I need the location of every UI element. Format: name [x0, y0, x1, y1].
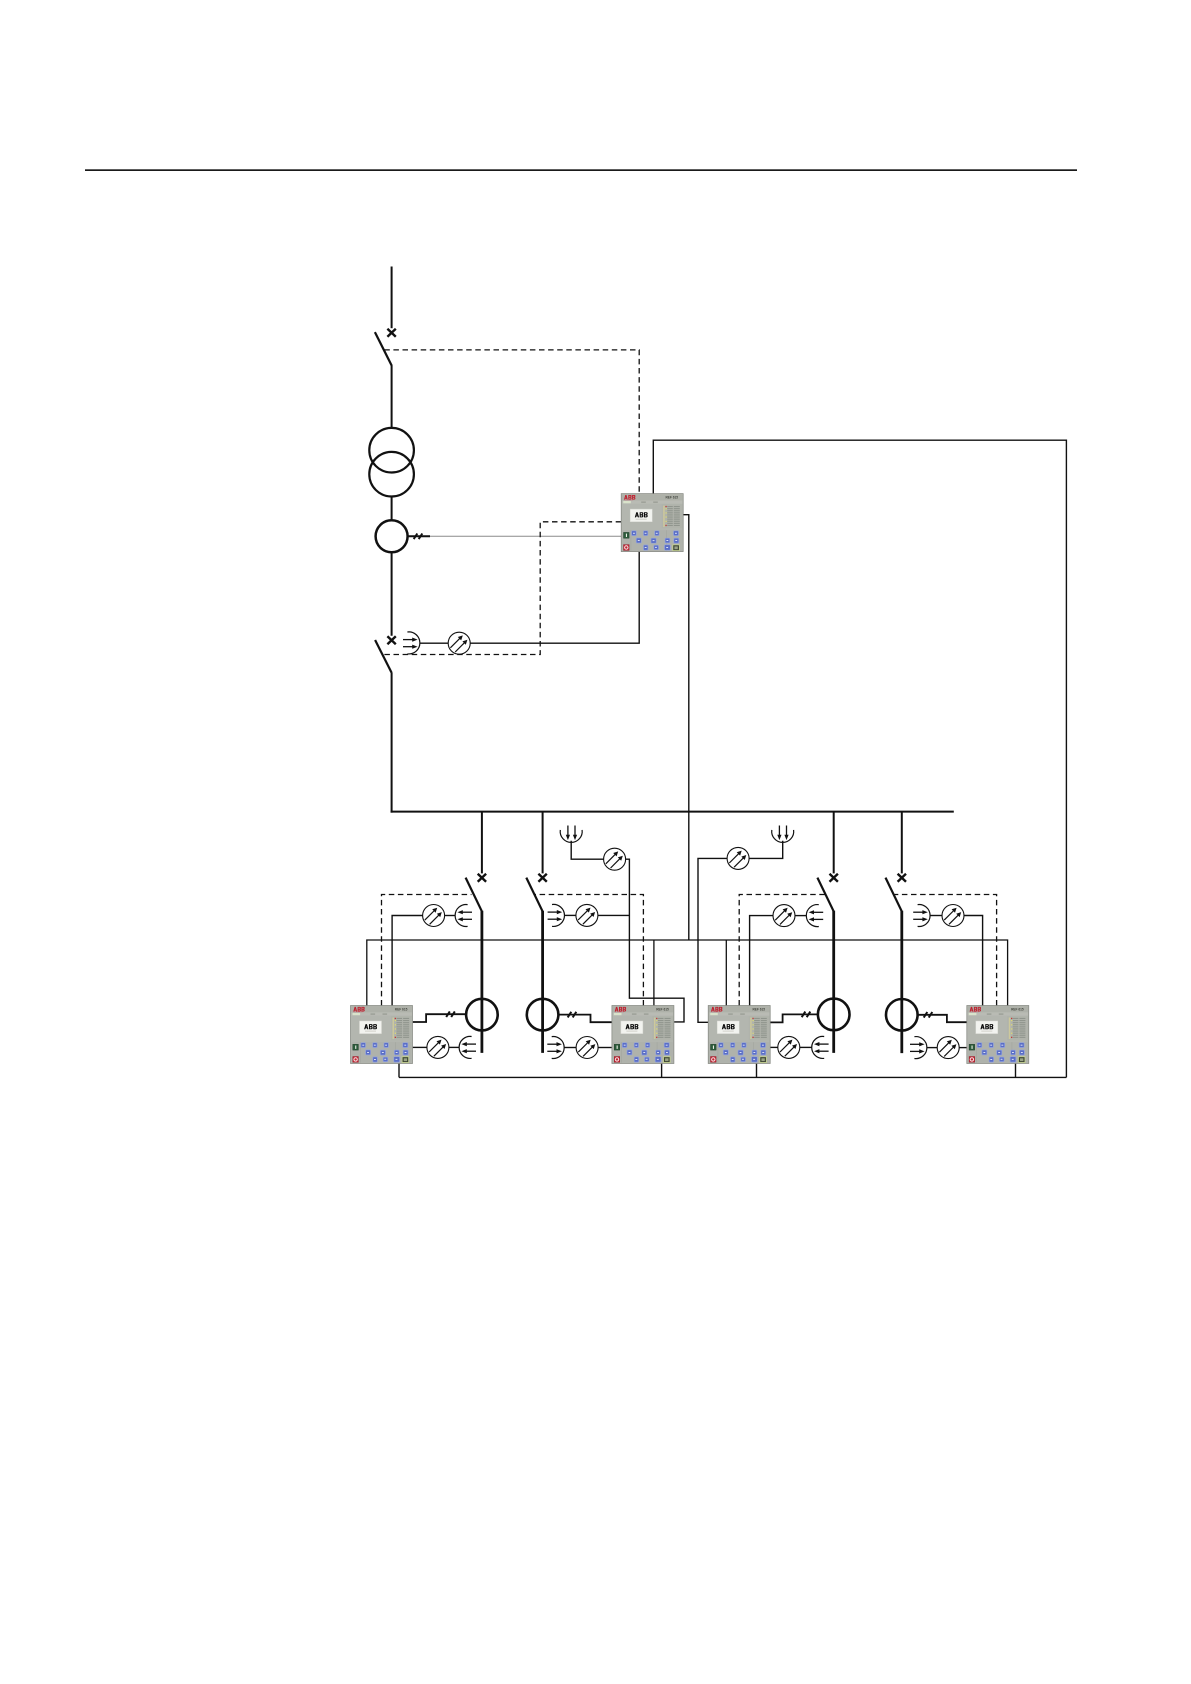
drop to relay U3 [725, 940, 727, 1006]
wire to relay U2 wrap [626, 859, 684, 1022]
wire [565, 914, 577, 916]
wire [445, 915, 455, 917]
CT T0 slash marks [414, 534, 423, 540]
relay U3 CT wire [770, 1014, 817, 1022]
bus sensor S5 [604, 848, 626, 870]
bay3 sensor S3a [773, 905, 795, 927]
wire [391, 497, 393, 521]
relay U4 bottom stub [1015, 1063, 1017, 1077]
CT T0 circle [376, 520, 408, 552]
feeder F2 [526, 812, 558, 1053]
bay2 sensor S2a [576, 904, 598, 926]
bottom horizontal wire [399, 1076, 1066, 1078]
CT T0 output stub [408, 535, 431, 537]
bay4 plug [913, 905, 930, 927]
wire [795, 915, 806, 917]
wire [598, 1047, 612, 1049]
bay4 plug lower [910, 1037, 927, 1059]
drop to relay U2 [653, 940, 655, 1006]
wire sensor S0 to relay U0 bottom [470, 552, 639, 644]
wire [391, 365, 393, 428]
sensor S4b [937, 1037, 959, 1059]
wire [449, 1046, 459, 1048]
wire relay U0 right output down to station bus [683, 515, 689, 940]
bay3 sensor wire [750, 916, 774, 1006]
bay1 plug [455, 905, 472, 927]
relay U1 [351, 1006, 413, 1064]
relay U4 [967, 1006, 1029, 1064]
disconnector Q0 fixed contact [387, 329, 395, 337]
breaker Q1 fixed contact [387, 636, 395, 644]
wire [598, 914, 630, 916]
transformer T1 winding 2 [369, 452, 414, 497]
wire [391, 552, 393, 636]
relay U3 [708, 1006, 770, 1064]
relay U0 [621, 494, 683, 552]
dashed control wire Q0 to relay U0 top [383, 350, 640, 655]
relay U1 CT wire [413, 1014, 466, 1022]
wire plug to sensor S0 [420, 642, 448, 644]
relay U1 lower wire [413, 1046, 427, 1048]
relay U4 CT wire [918, 1015, 967, 1022]
dashed control wire relay U0 left to Q1 [383, 522, 622, 655]
dashed wire relay U3 to breaker F3 [739, 895, 825, 1006]
feeder F3 [817, 812, 849, 1053]
feeder F4 [886, 812, 918, 1054]
bay3 plug [806, 905, 823, 927]
bay2 plug lower [547, 1037, 564, 1059]
plug sensor at Q1 [403, 632, 420, 654]
wire [930, 915, 942, 917]
wire [959, 1047, 967, 1049]
dashed wire relay U2 to breaker F2 [535, 895, 644, 1006]
wire [564, 1047, 576, 1049]
wire [964, 916, 983, 1006]
bay1 sensor S1a [423, 905, 445, 927]
incoming feeder line [391, 267, 393, 329]
transformer T1 winding 1 [369, 428, 414, 473]
wire [800, 1046, 812, 1048]
wire relay U0 top to right loop down [653, 440, 1066, 1077]
wire [571, 841, 603, 860]
wire down to busbar [391, 672, 393, 812]
wire [927, 1047, 937, 1049]
relay U2 [612, 1006, 674, 1064]
plug [459, 1036, 476, 1058]
relay U1 bottom stub [398, 1063, 400, 1077]
bay4 sensor S4a [942, 905, 964, 927]
breaker Q1 blade [375, 640, 391, 673]
feeder F1 [466, 812, 498, 1053]
wire [749, 841, 783, 859]
sensor S1b [427, 1036, 449, 1058]
relay U2 CT wire [559, 1015, 612, 1023]
combi sensor S0 [448, 632, 470, 654]
dashed wire relay U1 to breaker F1 [382, 895, 472, 1006]
relay U3 lower wire [770, 1046, 778, 1048]
plug [812, 1036, 829, 1058]
bus plug right [772, 826, 794, 843]
disconnector Q0 blade [375, 332, 392, 366]
thin wire CT to relay U0 [430, 535, 621, 537]
dashed wire relay U4 to breaker F4 [895, 895, 997, 1006]
sensor S2b [576, 1037, 598, 1059]
sensor S3b [778, 1036, 800, 1058]
wire to relay U3 left [698, 858, 727, 1022]
bay1 sensor wire [392, 916, 423, 1006]
bus plug left [560, 826, 582, 843]
bus sensor S6 [727, 847, 749, 869]
bay2 plug [548, 904, 565, 926]
relay U2 bottom stub [661, 1063, 663, 1077]
relay U3 bottom stub [756, 1063, 758, 1077]
